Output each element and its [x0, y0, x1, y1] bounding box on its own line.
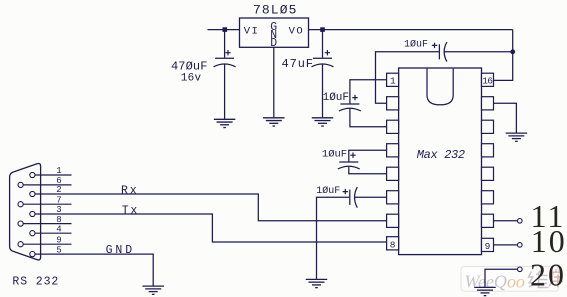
external terminal circle 20	[518, 267, 523, 272]
ground	[474, 287, 496, 295]
svg-text:WeeQoo: WeeQoo	[465, 271, 525, 291]
regulator U 78L05 box	[240, 18, 309, 47]
DB9 stub pin 7	[23, 203, 71, 205]
wire: VCC vertical down to pin16	[494, 30, 513, 81]
wire: C2 bottom lead to pin5	[349, 167, 387, 174]
pin 16 pad	[482, 73, 494, 86]
DB9 connector outline	[10, 163, 41, 259]
junction node on VCC vertical	[510, 49, 515, 54]
plus of 10uF C2	[350, 153, 355, 158]
wire: 470uF bottom lead	[224, 64, 226, 118]
svg-text:78LØ5: 78LØ5	[253, 2, 298, 17]
ground	[263, 118, 285, 126]
plus of 10uF C1	[352, 95, 357, 100]
capacitor C 10uF V- plates	[350, 187, 358, 208]
svg-text:47ØuF: 47ØuF	[171, 59, 208, 73]
ground	[214, 119, 236, 127]
pin 14 pad	[482, 120, 494, 133]
pin boxes left (1-8)	[387, 73, 494, 251]
svg-text:Max 232: Max 232	[417, 148, 465, 162]
svg-text:9: 9	[56, 235, 61, 245]
svg-text:Tx: Tx	[122, 204, 139, 217]
ground	[306, 279, 328, 287]
wire: GND net from DB9 pin5	[35, 254, 153, 286]
svg-text:D: D	[270, 37, 277, 50]
plus of 10uF V-	[343, 189, 348, 194]
wire: pin10 to external circle	[494, 220, 518, 222]
plus of 10uF V+	[432, 43, 437, 48]
wire: VO output rail to top right	[309, 29, 513, 31]
wire: Rx net DB9 pin2 to pin7	[35, 194, 387, 221]
DB9 stub pin 8	[23, 223, 71, 225]
wire: V- cap right lead to pin6	[355, 196, 387, 198]
pin 5 pad	[387, 167, 399, 180]
pin 8 pad	[387, 237, 399, 250]
DB9 stub pin 6	[23, 184, 71, 186]
svg-text:7: 7	[56, 195, 61, 205]
svg-text:5: 5	[56, 245, 61, 255]
wire: C2 cap pin4 lead	[349, 150, 387, 162]
wire: external 20 to ground	[485, 269, 518, 287]
ground	[142, 286, 164, 294]
svg-text:1ØuF: 1ØuF	[322, 149, 347, 161]
DB9 pin circles left column 6,7,8,9	[18, 182, 23, 187]
svg-text:9: 9	[485, 241, 491, 252]
external terminal circle 10	[518, 243, 523, 248]
DB9 pin labels	[56, 166, 61, 255]
external terminal circle 11	[518, 219, 523, 224]
IC notch	[427, 69, 453, 105]
svg-text:2: 2	[56, 185, 61, 195]
wire: Tx net DB9 pin3 to pin8	[35, 214, 387, 242]
wire: 470uF top lead	[224, 30, 226, 58]
watermark box	[461, 267, 563, 292]
wire: V- cap left lead and ground drop	[317, 197, 350, 279]
svg-text:1ØuF: 1ØuF	[404, 39, 428, 51]
wire: 78L05 GND lead	[273, 47, 275, 117]
svg-text:GND: GND	[106, 244, 135, 257]
IC U Max232 body	[399, 68, 482, 255]
wire: pin9 to external circle	[494, 244, 518, 246]
wire: C1 bottom lead to pin3	[350, 109, 387, 127]
svg-text:VO: VO	[289, 26, 305, 38]
wire: input to VI	[208, 29, 240, 31]
capacitor C1 plates	[339, 104, 361, 111]
svg-text:1ØuF: 1ØuF	[323, 92, 349, 104]
svg-text:10: 10	[531, 223, 567, 259]
DB9 stub pin 4	[35, 232, 72, 234]
pin 9 pad	[482, 238, 494, 251]
watermark CJK glyph 库	[550, 269, 564, 287]
wire: pin15 to ground	[494, 103, 517, 132]
pin 6 pad	[387, 191, 399, 204]
svg-text:8: 8	[390, 239, 396, 250]
pin 11 pad	[482, 191, 494, 204]
svg-text:1: 1	[56, 166, 61, 176]
svg-text:Rx: Rx	[121, 185, 138, 198]
DB9 stub pin 1	[35, 174, 72, 176]
wire: 47uF bottom lead	[322, 64, 324, 117]
pin 12 pad	[482, 167, 494, 180]
svg-text:8: 8	[56, 215, 61, 225]
watermark CJK glyph 维	[529, 271, 549, 288]
wire: 10uF V+ cap right lead	[445, 51, 513, 53]
capacitor C 47uF plates	[312, 58, 334, 67]
svg-text:4: 4	[56, 224, 61, 234]
capacitor C2 plates	[338, 162, 360, 169]
pin 15 pad	[482, 97, 494, 110]
pin 3 pad	[387, 120, 399, 133]
wire: 10uF V+ cap left lead	[376, 52, 439, 104]
pin 1 pad	[387, 73, 399, 86]
svg-text:20: 20	[530, 257, 566, 293]
svg-text:VI: VI	[244, 26, 260, 38]
plus of 47uF	[325, 50, 330, 55]
ground	[312, 118, 334, 126]
pin 2 pad	[387, 97, 399, 110]
svg-text:1: 1	[390, 76, 396, 87]
pin 10 pad	[482, 214, 494, 227]
svg-text:16v: 16v	[181, 73, 202, 85]
svg-text:3: 3	[56, 205, 61, 215]
wire: 47uF top lead	[322, 30, 324, 58]
svg-text:RS 232: RS 232	[12, 276, 59, 289]
svg-text:16: 16	[482, 76, 493, 87]
svg-text:47uF: 47uF	[282, 57, 314, 71]
ground	[506, 133, 528, 141]
pin 4 pad	[387, 144, 399, 157]
svg-text:1ØuF: 1ØuF	[316, 185, 340, 197]
junction node at VO output	[320, 27, 325, 32]
pin 7 pad	[387, 214, 399, 227]
capacitor C 470uF plates	[214, 58, 236, 67]
plus of 470uF	[225, 50, 230, 55]
wire: C1 cap pin1 to pin3	[350, 80, 387, 104]
junction node at VI input	[223, 27, 228, 32]
pin 13 pad	[482, 144, 494, 157]
DB9 pin circles right column 1,2,3,4,5	[18, 172, 35, 256]
DB9 stub pin 9	[23, 243, 71, 245]
capacitor C 10uF V+ plates	[439, 42, 447, 62]
